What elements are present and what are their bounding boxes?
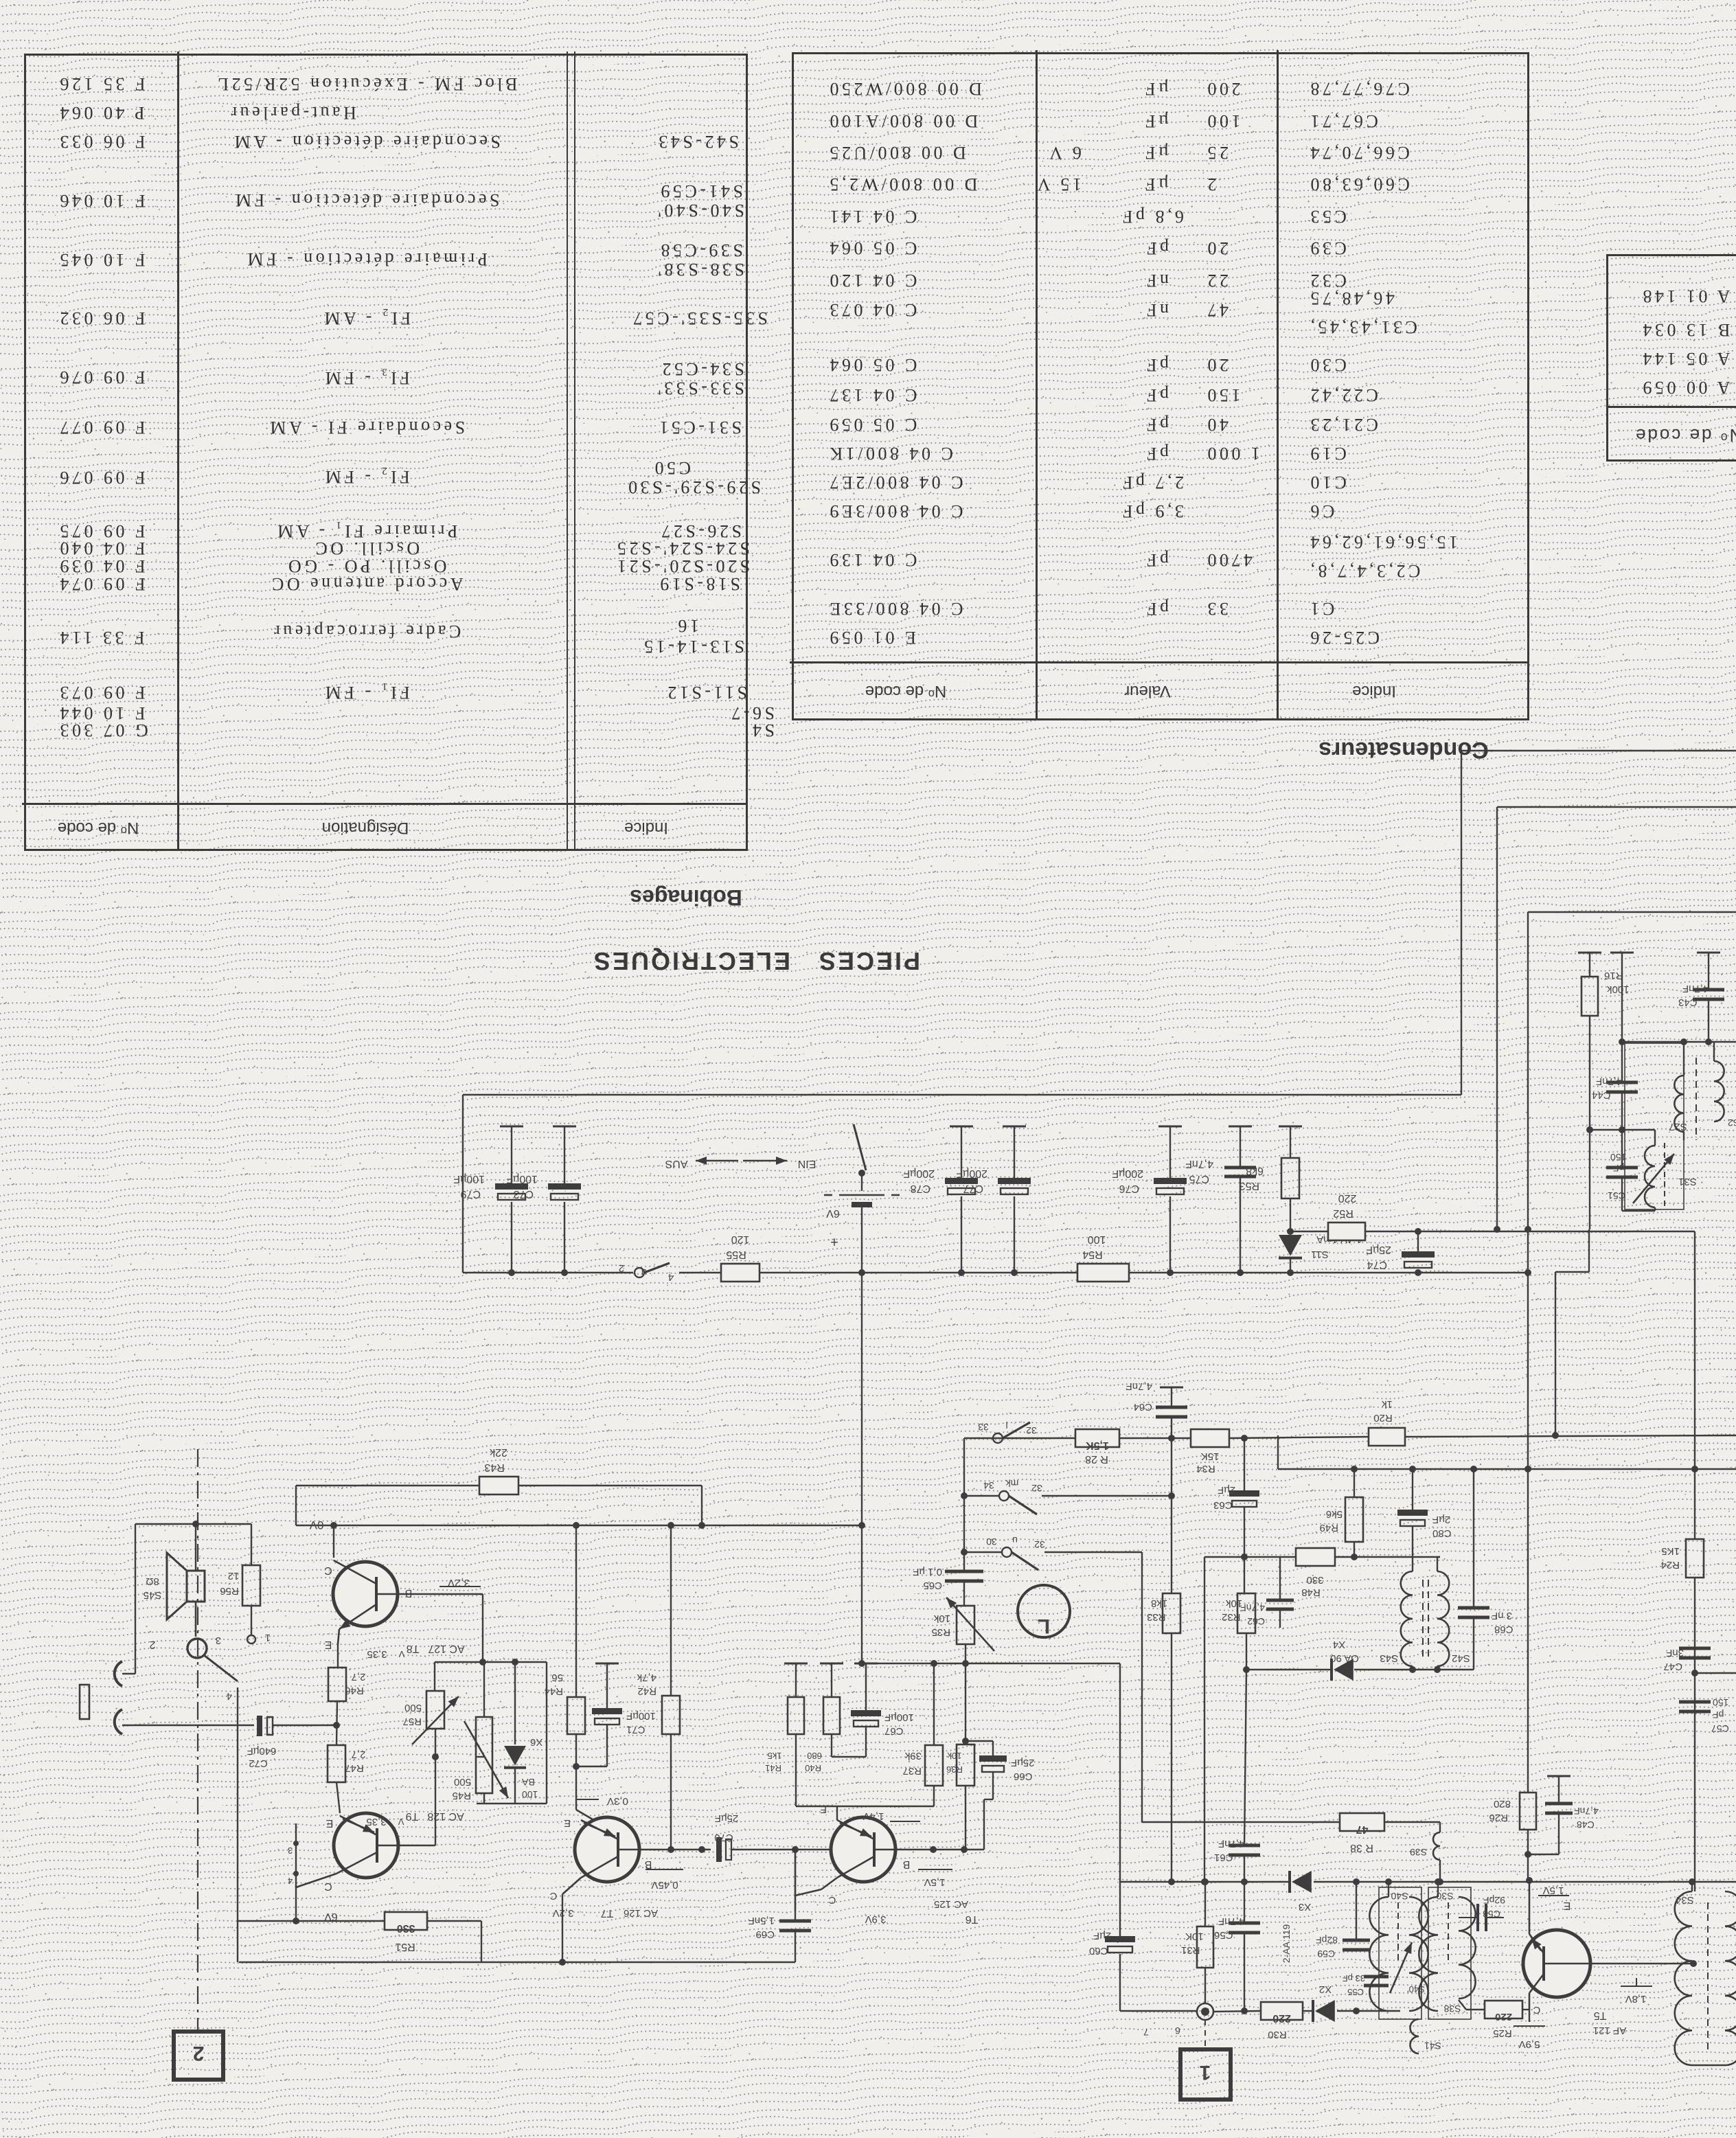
svg-text:X6: X6 — [530, 1736, 542, 1748]
svg-text:B: B — [645, 1858, 652, 1870]
svg-text:3,35: 3,35 — [367, 1648, 387, 1660]
svg-text:1k8: 1k8 — [1151, 1597, 1167, 1609]
switch 30-u-32 — [964, 1551, 1002, 1553]
resistor R55 120 — [721, 1264, 759, 1282]
resistor R44 56 — [575, 1525, 577, 1697]
coil S26 (cut) — [1695, 1058, 1697, 1140]
node: circled junction — [1197, 2003, 1213, 2020]
svg-text:8Ω: 8Ω — [146, 1576, 159, 1587]
resistor R52 220 — [1328, 1222, 1365, 1240]
svg-text:C: C — [828, 1894, 836, 1906]
transistor T6 AC125 — [831, 1817, 895, 1882]
svg-text:T7: T7 — [601, 1907, 614, 1919]
capacitor C63 2uF — [1229, 1490, 1259, 1497]
resistor R34 15K — [1191, 1429, 1229, 1447]
switch: on/off above battery — [854, 1124, 866, 1170]
svg-text:33 pF: 33 pF — [1343, 1973, 1365, 1983]
svg-text:u: u — [1012, 1535, 1018, 1546]
svg-text:1,5K: 1,5K — [1086, 1440, 1109, 1451]
svg-text:3 nF: 3 nF — [1492, 1610, 1512, 1622]
svg-text:C56: C56 — [1214, 1929, 1233, 1941]
capacitor C43 4,7nF — [1697, 952, 1720, 954]
svg-text:100k: 100k — [1607, 983, 1630, 995]
svg-text:56: 56 — [551, 1672, 563, 1683]
svg-text:4,7nF: 4,7nF — [1240, 1602, 1265, 1613]
svg-text:R47: R47 — [345, 1762, 364, 1774]
svg-text:1: 1 — [1200, 2061, 1211, 2084]
speaker S45 8ohm — [135, 1523, 251, 1525]
svg-text:S2: S2 — [1728, 1117, 1736, 1128]
svg-text:pF: pF — [1713, 1709, 1724, 1720]
resistor R51 330 — [385, 1912, 427, 1930]
switch 33-l-32 — [993, 1433, 1003, 1443]
svg-text:1,5nF: 1,5nF — [749, 1915, 775, 1926]
svg-text:AUS: AUS — [665, 1158, 688, 1170]
transistor T5 AF121 — [1523, 1930, 1590, 1997]
svg-text:X4: X4 — [1333, 1639, 1345, 1650]
wire: to T7 emitter, 0,3V tap — [575, 1766, 577, 1810]
wire: node to R30 — [1213, 2011, 1261, 2012]
battery minus bus to 0V — [861, 1273, 863, 1663]
wire: bias bottom link — [477, 1803, 547, 1804]
svg-text:R45: R45 — [452, 1790, 471, 1801]
svg-text:680: 680 — [807, 1751, 822, 1761]
svg-text:S43: S43 — [1380, 1652, 1398, 1664]
svg-text:C48: C48 — [1577, 1819, 1595, 1830]
svg-text:BA: BA — [521, 1777, 534, 1788]
svg-text:C77: C77 — [963, 1183, 983, 1194]
svg-text:200µF: 200µF — [956, 1168, 987, 1179]
svg-text:2µF: 2µF — [1218, 1484, 1235, 1496]
svg-text:C60: C60 — [1089, 1945, 1108, 1957]
svg-text:2µF: 2µF — [1093, 1930, 1111, 1942]
svg-text:100µF: 100µF — [453, 1173, 485, 1185]
svg-text:R32: R32 — [1222, 1611, 1241, 1623]
svg-text:6k8: 6k8 — [1246, 1165, 1264, 1176]
svg-text:100: 100 — [522, 1789, 538, 1800]
wire: R51 line — [237, 1687, 238, 1962]
svg-text:2: 2 — [193, 2042, 205, 2065]
svg-text:EIN: EIN — [798, 1158, 816, 1170]
bus x1706 — [1160, 1387, 1183, 1389]
svg-text:X3: X3 — [1299, 1901, 1311, 1913]
wire: bottom rail — [239, 1961, 795, 1963]
svg-text:4: 4 — [288, 1876, 293, 1886]
resistor R20 1k — [1369, 1428, 1405, 1446]
capacitor C56 4,7nF — [1244, 1882, 1245, 1923]
svg-text:C76: C76 — [1119, 1183, 1139, 1194]
capacitor C48 4,7nF — [1547, 1775, 1571, 1777]
diode X4 OA90 — [1246, 1669, 1331, 1670]
svg-text:C78: C78 — [911, 1183, 930, 1194]
svg-text:R54: R54 — [1082, 1249, 1102, 1260]
svg-text:C: C — [324, 1565, 332, 1576]
svg-text:0,1 µF: 0,1 µF — [913, 1566, 942, 1578]
resistor R49 5k6 — [1345, 1497, 1363, 1542]
svg-text:32: 32 — [1026, 1425, 1037, 1436]
svg-text:200µF: 200µF — [903, 1168, 935, 1179]
svg-text:R42: R42 — [637, 1685, 656, 1697]
resistor R25 220 — [1466, 2009, 1485, 2010]
capacitor C61 4,7nF — [1229, 1844, 1260, 1847]
resistor R32 10k — [1237, 1593, 1255, 1633]
svg-text:30: 30 — [986, 1536, 997, 1547]
svg-text:S42: S42 — [1452, 1652, 1470, 1664]
shield box S27/S31 — [1625, 1043, 1684, 1209]
svg-text:T8: T8 — [407, 1643, 420, 1654]
svg-text:C61: C61 — [1214, 1852, 1233, 1863]
wire: T6 collector branch — [795, 1889, 821, 1896]
svg-text:R53: R53 — [1240, 1180, 1259, 1192]
svg-text:820: 820 — [1494, 1798, 1511, 1810]
transistor T8 AC127 — [333, 1525, 334, 1558]
svg-text:3: 3 — [216, 1635, 221, 1646]
svg-text:R55: R55 — [726, 1249, 746, 1260]
wiper arrow of R45 — [464, 1721, 508, 1798]
svg-text:R 38: R 38 — [1350, 1842, 1373, 1854]
svg-text:4,7nF: 4,7nF — [1218, 1915, 1244, 1927]
svg-text:C64: C64 — [1133, 1401, 1152, 1413]
svg-text:E: E — [564, 1817, 571, 1829]
wire: AVC line y2267 — [1204, 1556, 1296, 1558]
svg-text:25µF: 25µF — [715, 1812, 739, 1824]
svg-text:R48: R48 — [1301, 1587, 1321, 1598]
svg-text:R16: R16 — [1604, 970, 1623, 981]
wire: T8 base to bias node — [399, 1593, 483, 1595]
svg-text:32: 32 — [1034, 1539, 1045, 1550]
wire: T9 base link — [401, 1845, 435, 1846]
svg-text:T5: T5 — [1594, 2010, 1607, 2021]
preset R45 500 — [477, 1756, 484, 1758]
svg-text:mk: mk — [1005, 1478, 1019, 1489]
coil S42 — [1437, 1571, 1449, 1666]
resistor R31 10K — [1204, 1882, 1206, 1926]
svg-text:4: 4 — [668, 1271, 674, 1283]
resistor R30 220 — [1261, 2002, 1303, 2020]
svg-text:4,7k: 4,7k — [637, 1672, 656, 1683]
transistor T7 AC126 — [575, 1817, 639, 1882]
capacitor C70 25uF — [716, 1837, 722, 1862]
capacitor C68 3nF — [1473, 1469, 1474, 1608]
svg-text:C59: C59 — [1317, 1948, 1335, 1959]
svg-text:5,9V: 5,9V — [1519, 2038, 1540, 2050]
svg-text:500: 500 — [454, 1776, 471, 1788]
svg-text:R46: R46 — [345, 1685, 364, 1696]
svg-text:L: L — [1038, 1615, 1050, 1637]
svg-text:E: E — [326, 1817, 334, 1829]
contact numbers 3,4 near T9 — [295, 1823, 297, 1887]
svg-text:C44: C44 — [1592, 1089, 1611, 1101]
svg-text:R30: R30 — [1268, 2029, 1287, 2040]
battery 6V — [839, 1194, 884, 1196]
svg-text:4,7nF: 4,7nF — [1218, 1838, 1244, 1850]
svg-text:100µF: 100µF — [626, 1710, 656, 1722]
resistor R41 1k5 — [820, 1663, 843, 1665]
svg-text:3: 3 — [288, 1845, 293, 1856]
svg-text:3,35: 3,35 — [366, 1816, 386, 1828]
wire: R20 feed line y2090 — [994, 1437, 1075, 1439]
FI coils right edge: R16/C43/C44/S27/S26/C51/S31 — [1578, 952, 1601, 954]
svg-text:R24: R24 — [1660, 1559, 1680, 1571]
transistor T9 AC128 — [334, 1813, 398, 1878]
svg-text:4,7nF: 4,7nF — [1596, 1076, 1622, 1087]
svg-text:C80: C80 — [1432, 1527, 1452, 1539]
volume pot bus x1404 — [963, 1438, 965, 1571]
EIN/AUS arrows — [696, 1160, 738, 1162]
svg-text:150: 150 — [1610, 1152, 1627, 1163]
svg-text:34: 34 — [983, 1480, 994, 1491]
capacitor C62 4,7nF — [1279, 1557, 1281, 1600]
svg-text:3nF: 3nF — [1666, 1647, 1684, 1659]
wire: links — [1590, 1129, 1622, 1130]
svg-text:220: 220 — [1272, 2012, 1291, 2024]
svg-text:15K: 15K — [1201, 1451, 1220, 1462]
svg-text:S34: S34 — [1676, 1894, 1694, 1906]
svg-text:100µF: 100µF — [884, 1711, 914, 1723]
boxed terminal 1 — [1180, 2049, 1231, 2100]
capacitor C57 150pF — [1679, 1701, 1711, 1704]
svg-text:0,3V: 0,3V — [607, 1795, 628, 1807]
svg-text:2,7: 2,7 — [352, 1749, 366, 1760]
capacitor C51 150pF — [1606, 1166, 1638, 1170]
svg-text:S45: S45 — [144, 1589, 162, 1601]
svg-text:R34: R34 — [1196, 1463, 1215, 1475]
wire: R43 feedback line — [296, 1485, 479, 1486]
svg-text:330: 330 — [397, 1922, 415, 1934]
svg-text:3,9V: 3,9V — [865, 1913, 887, 1925]
svg-text:S31: S31 — [1678, 1176, 1697, 1187]
capacitor C58 92pF — [1459, 1917, 1478, 1918]
svg-text:C72: C72 — [249, 1758, 268, 1769]
svg-text:V: V — [398, 1817, 404, 1827]
svg-text:C57: C57 — [1711, 1723, 1729, 1734]
switch 34-mk-32 — [964, 1495, 999, 1497]
svg-text:82pF: 82pF — [1316, 1935, 1338, 1946]
svg-text:R20: R20 — [1373, 1412, 1393, 1424]
svg-text:C70: C70 — [714, 1832, 733, 1843]
svg-text:C63: C63 — [1213, 1499, 1233, 1511]
resistor R28 1,5K — [1075, 1429, 1119, 1447]
resistor R16 100k — [1581, 977, 1598, 1016]
svg-text:4,7nF: 4,7nF — [1185, 1158, 1213, 1170]
switch: battery circuit contact 4-u-2 — [635, 1268, 644, 1277]
capacitor C67 100uF — [854, 1663, 878, 1665]
capacitor C69 1,5nF — [795, 1850, 796, 1921]
svg-text:39k: 39k — [904, 1750, 922, 1762]
svg-text:S38: S38 — [1443, 2003, 1461, 2014]
svg-text:R 28: R 28 — [1085, 1453, 1108, 1465]
svg-text:10k: 10k — [933, 1613, 950, 1624]
chassis dash-dot line — [197, 1449, 198, 2032]
svg-text:+: + — [830, 1234, 838, 1249]
svg-text:R37: R37 — [902, 1765, 922, 1777]
wire: T6 base to network — [895, 1849, 984, 1850]
svg-text:100: 100 — [1088, 1233, 1106, 1245]
svg-text:10K: 10K — [1185, 1931, 1204, 1942]
svg-text:1k: 1k — [1382, 1398, 1393, 1410]
svg-text:100µF: 100µF — [506, 1173, 538, 1185]
svg-text:150: 150 — [1713, 1697, 1729, 1708]
wire: T9 collector down — [295, 1886, 297, 1921]
svg-text:4,7nF: 4,7nF — [1682, 983, 1709, 994]
capacitor C60 2uF — [1119, 1882, 1121, 1936]
svg-text:0V: 0V — [309, 1519, 323, 1532]
resistor R40 680 — [784, 1663, 808, 1665]
svg-text:47: 47 — [1356, 1823, 1369, 1835]
svg-text:0,45V: 0,45V — [651, 1879, 678, 1891]
headphone jack contacts — [187, 1639, 207, 1658]
svg-text:2µF: 2µF — [1432, 1514, 1450, 1525]
svg-text:2: 2 — [149, 1639, 155, 1650]
svg-text:12: 12 — [228, 1570, 240, 1582]
band indicator circle L — [1018, 1585, 1070, 1637]
svg-text:C66: C66 — [1014, 1771, 1033, 1782]
svg-text:R40: R40 — [805, 1763, 821, 1773]
resistor R33 1k8 — [1163, 1593, 1180, 1633]
capacitor C47 3nF — [1679, 1647, 1711, 1650]
svg-text:S41: S41 — [1424, 2040, 1441, 2051]
svg-text:R49: R49 — [1319, 1522, 1338, 1534]
capacitor C77 200uF — [1003, 1126, 1026, 1128]
svg-text:5k6: 5k6 — [1326, 1508, 1343, 1520]
resistor R46 2,7 — [328, 1668, 346, 1701]
svg-text:330: 330 — [1306, 1574, 1323, 1586]
svg-text:R43: R43 — [484, 1462, 504, 1473]
svg-text:AC 126: AC 126 — [624, 1907, 658, 1919]
svg-text:u: u — [641, 1266, 647, 1278]
capacitor C74 25uF — [1415, 1228, 1421, 1235]
wire: RF supply rail y2740 — [1120, 1881, 1289, 1883]
resistor R54 100 — [1077, 1264, 1129, 1282]
svg-text:10k: 10k — [1226, 1597, 1243, 1609]
svg-text:C: C — [1533, 2004, 1540, 2016]
capacitor C72 640uF coupling — [198, 1725, 254, 1726]
svg-text:1,5V: 1,5V — [1543, 1885, 1564, 1896]
capacitor C79 100uF — [500, 1126, 523, 1128]
capacitor C76 200uF — [1158, 1126, 1182, 1128]
svg-text:22k: 22k — [489, 1446, 507, 1458]
svg-text:32: 32 — [1031, 1483, 1042, 1494]
wire: top line y1328 — [1528, 911, 1736, 913]
svg-text:6: 6 — [1175, 2025, 1180, 2036]
node: rail end at bus — [1524, 1269, 1531, 1276]
svg-text:R56: R56 — [220, 1585, 239, 1597]
wire: regulated line y1793 — [1290, 1231, 1328, 1232]
resistor R24 1k5 — [1686, 1539, 1704, 1578]
svg-text:T9: T9 — [406, 1810, 419, 1822]
svg-text:S40': S40' — [1407, 1984, 1425, 1994]
svg-text:C47: C47 — [1663, 1661, 1682, 1672]
svg-text:E: E — [1564, 1900, 1571, 1911]
svg-text:R25: R25 — [1493, 2027, 1512, 2039]
svg-text:V: V — [398, 1649, 404, 1659]
capacitor C78 200uF — [950, 1126, 973, 1128]
potentiometer R35 10k (volume) — [957, 1606, 974, 1644]
bias network node line y2420 — [435, 1661, 547, 1663]
svg-text:1,8V: 1,8V — [1625, 1993, 1647, 2005]
coil S34 — [1675, 1891, 1692, 2065]
resistor R26 820 — [1520, 1793, 1536, 1830]
svg-text:1k5: 1k5 — [768, 1751, 782, 1761]
svg-text:OA 90: OA 90 — [1330, 1652, 1359, 1664]
wire: R37 bottom joins emitter line — [836, 1806, 838, 1820]
svg-text:1,4V: 1,4V — [863, 1810, 884, 1822]
svg-text:1: 1 — [265, 1632, 271, 1644]
capacitor C65 0,1uF — [945, 1570, 983, 1573]
svg-text:AC 125: AC 125 — [934, 1898, 968, 1910]
svg-text:2-AA 119: 2-AA 119 — [1281, 1924, 1292, 1964]
svg-text:T6: T6 — [966, 1913, 979, 1925]
wire: frame lines to FM block — [1461, 751, 1462, 1095]
svg-text:C58: C58 — [1483, 1909, 1500, 1920]
capacitor C44 4,7nF — [1606, 1081, 1638, 1084]
diode X3 2-AA119 — [1292, 1871, 1312, 1893]
coil S27 — [1674, 1076, 1684, 1132]
wire: feed from 0V bus — [862, 1663, 1120, 1664]
svg-text:AF 121: AF 121 — [1593, 2025, 1626, 2036]
wire: to R38 det line — [1141, 1552, 1143, 1822]
bus x1812 — [1244, 1438, 1245, 1490]
resistor R47 2,7 — [328, 1745, 345, 1782]
svg-text:C65: C65 — [923, 1580, 942, 1591]
coil S41 — [1410, 2019, 1419, 2054]
svg-text:92pF: 92pF — [1483, 1895, 1505, 1906]
svg-text:7: 7 — [1143, 2027, 1149, 2038]
svg-text:R33: R33 — [1147, 1611, 1166, 1623]
capacitor C73 100uF — [553, 1126, 576, 1128]
svg-text:640µF: 640µF — [247, 1745, 277, 1757]
svg-text:S39: S39 — [1410, 1847, 1427, 1858]
svg-text:1,5V: 1,5V — [924, 1876, 946, 1888]
diode X6 BA100 — [514, 1662, 516, 1744]
svg-text:R44: R44 — [544, 1685, 563, 1697]
svg-text:500: 500 — [404, 1702, 422, 1714]
coils S39 + S38/S38' — [1439, 1822, 1441, 1832]
svg-text:R51: R51 — [395, 1941, 415, 1953]
resistor R56 12 — [251, 1524, 252, 1565]
svg-text:R36: R36 — [946, 1764, 963, 1775]
jack plug symbols — [115, 1661, 122, 1686]
resistor R37 39k — [933, 1663, 935, 1745]
svg-text:120: 120 — [731, 1233, 750, 1245]
svg-text:2: 2 — [619, 1262, 624, 1274]
svg-text:R41: R41 — [765, 1763, 781, 1773]
svg-text:R26: R26 — [1489, 1812, 1508, 1823]
svg-text:E: E — [325, 1639, 332, 1650]
svg-text:25µF: 25µF — [1011, 1757, 1035, 1769]
capacitor C75 4,7nF — [1229, 1126, 1252, 1128]
resistor R48 330 — [1296, 1548, 1335, 1566]
svg-text:C62: C62 — [1247, 1616, 1265, 1627]
wire: rail y2139 — [1278, 1468, 1736, 1470]
zener diode S11 1,4V 1mA — [1279, 1235, 1302, 1256]
boxed terminal 2 — [174, 2032, 223, 2080]
coil S31 — [1645, 1146, 1655, 1207]
svg-text:AC 127: AC 127 — [428, 1643, 464, 1654]
svg-text:C71: C71 — [626, 1724, 646, 1736]
dashed link node to terminal 1 — [1204, 2020, 1206, 2049]
svg-text:C74: C74 — [1367, 1259, 1387, 1271]
capacitor C71 100uF — [595, 1663, 619, 1665]
resistor R43 22k — [479, 1477, 518, 1494]
wire: power box outline — [462, 1095, 464, 1273]
svg-text:R31: R31 — [1181, 1944, 1200, 1956]
svg-text:4: 4 — [227, 1690, 232, 1702]
wire: T7 collector to bottom rail — [562, 1894, 563, 1962]
svg-text:C67: C67 — [884, 1725, 904, 1737]
capacitor C80 2uF — [1409, 1466, 1416, 1472]
svg-text:C73: C73 — [514, 1188, 534, 1200]
